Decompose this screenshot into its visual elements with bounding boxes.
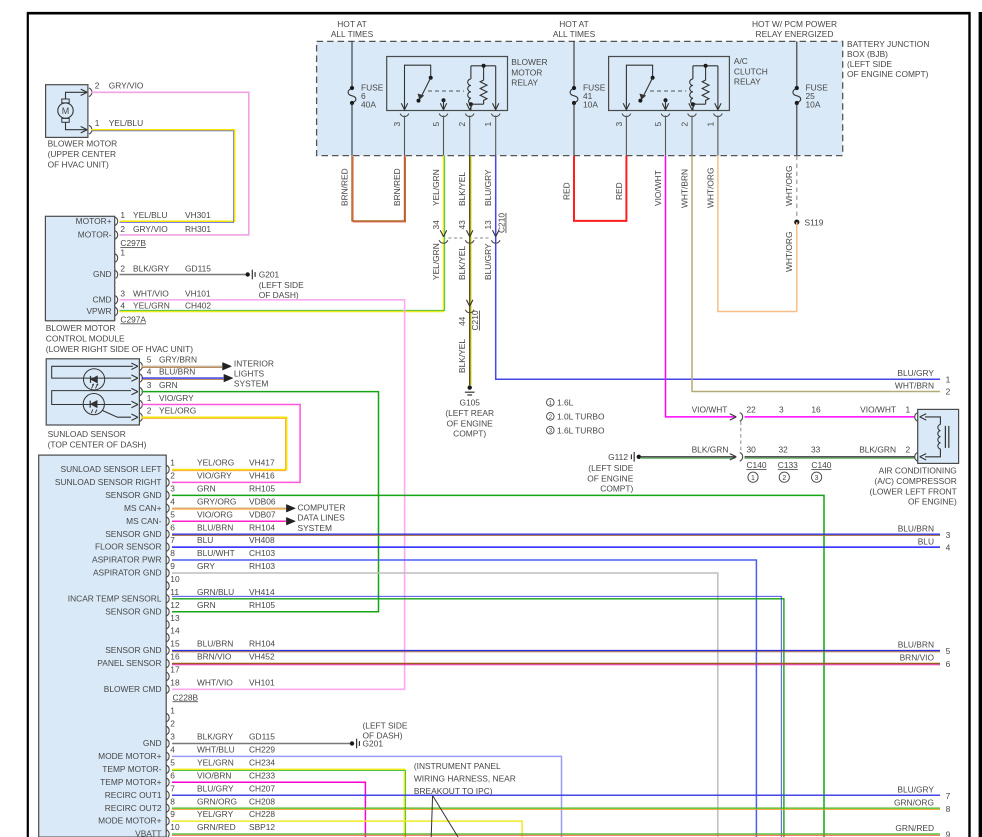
HVAC module box	[39, 455, 167, 837]
svg-text:BLU/GRY: BLU/GRY	[197, 783, 234, 793]
wire WHT/BRN relay K2 pin2 to terminal 2	[692, 156, 940, 392]
svg-text:33: 33	[811, 445, 821, 455]
svg-text:16: 16	[811, 405, 821, 415]
svg-text:BLU: BLU	[197, 535, 213, 545]
HVAC module pin 15 SENSOR GND	[166, 646, 169, 655]
svg-text:WHT/ORG: WHT/ORG	[784, 166, 794, 206]
module U1 pin 1 C297A empty	[115, 254, 118, 263]
svg-text:1: 1	[95, 118, 100, 128]
svg-text:12: 12	[170, 600, 180, 610]
wire BLK/GRN C140 to compressor pin 2	[745, 456, 915, 458]
svg-text:G201: G201	[259, 269, 280, 279]
svg-text:RH103: RH103	[249, 561, 275, 571]
svg-text:3: 3	[170, 483, 175, 493]
svg-text:34: 34	[431, 220, 441, 230]
svg-text:VIO/WHT: VIO/WHT	[860, 405, 896, 415]
HVAC module pin 12 SENSOR GND	[166, 607, 169, 616]
svg-text:4: 4	[170, 496, 175, 506]
svg-text:C210: C210	[497, 213, 507, 233]
svg-text:RELAY ENERGIZED: RELAY ENERGIZED	[756, 29, 834, 39]
relay K2 coil/resistor rails	[693, 65, 718, 67]
svg-text:BLOWER MOTOR: BLOWER MOTOR	[46, 323, 116, 333]
svg-text:5: 5	[170, 509, 175, 519]
svg-text:COMPT): COMPT)	[453, 429, 486, 439]
wire GRY/ORG pin4 to computer data lines	[172, 507, 286, 509]
HVAC module pin 4 MS CAN+	[166, 504, 169, 513]
svg-text:1.6L: 1.6L	[557, 398, 574, 408]
HVAC module pin 8 ASPIRATOR PWR	[166, 556, 169, 565]
svg-text:M: M	[62, 106, 70, 116]
relay K1 coil/resistor rails	[471, 65, 496, 67]
wire YEL/GRN relay K1 pin5 to C210-34 to VPWR	[120, 156, 444, 312]
sunload pin 5 GRY/BRN	[131, 363, 138, 369]
svg-text:RH301: RH301	[185, 224, 211, 234]
svg-text:GRY/VIO: GRY/VIO	[109, 81, 144, 91]
svg-text:YEL/GRN: YEL/GRN	[431, 243, 441, 280]
svg-text:RED: RED	[614, 182, 624, 200]
wire VIO/GRY sunload pin1 to module pin 2	[142, 405, 301, 483]
svg-text:10A: 10A	[806, 100, 821, 110]
svg-text:OF ENGINE): OF ENGINE)	[908, 497, 957, 507]
svg-text:HOT AT: HOT AT	[559, 19, 588, 29]
svg-text:3: 3	[815, 475, 819, 482]
page border frame top	[27, 12, 971, 15]
battery junction box (BJB) dashed enclosure	[317, 41, 843, 155]
svg-text:YEL/ORG: YEL/ORG	[197, 458, 234, 468]
svg-text:BLU/GRY: BLU/GRY	[483, 243, 493, 280]
svg-text:6: 6	[170, 522, 175, 532]
svg-text:2: 2	[170, 471, 175, 481]
wire YEL/ORG sunload pin2 to module pin 1	[142, 417, 287, 469]
svg-text:BLOWER CMD: BLOWER CMD	[104, 684, 162, 694]
HVAC module C228A pin 10 VBATT	[166, 830, 169, 837]
svg-text:BLU/GRY: BLU/GRY	[897, 368, 934, 378]
svg-text:BLOWER MOTOR: BLOWER MOTOR	[48, 139, 118, 149]
blower motor pin 2 connector	[81, 89, 88, 95]
wire GRN/BLU pin11 down off page	[172, 599, 784, 837]
svg-text:ASPIRATOR PWR: ASPIRATOR PWR	[92, 555, 162, 565]
svg-text:DATA LINES: DATA LINES	[298, 513, 346, 523]
svg-text:WHT/ORG: WHT/ORG	[705, 168, 715, 208]
svg-text:VIO/WHT: VIO/WHT	[653, 170, 663, 206]
svg-text:(TOP CENTER OF DASH): (TOP CENTER OF DASH)	[48, 440, 147, 450]
sunload sensor box	[46, 359, 139, 425]
svg-text:MOTOR+: MOTOR+	[76, 216, 112, 226]
svg-text:3: 3	[946, 530, 951, 540]
sunload sensor element 2 rectangle	[52, 391, 131, 405]
module U1 pin 3 CMD	[115, 296, 118, 305]
engine legend circled 1 1.6L	[547, 399, 555, 407]
svg-text:3: 3	[170, 732, 175, 742]
relay K1 pin arrows and connector arcs	[401, 103, 407, 110]
sunload photodiode D2	[83, 394, 104, 415]
blower motor internal wires	[66, 92, 87, 99]
wire fuse 25 to box bottom	[796, 103, 798, 156]
svg-text:CH234: CH234	[249, 757, 275, 767]
svg-text:BLK/YEL: BLK/YEL	[457, 246, 467, 280]
svg-text:1: 1	[946, 374, 951, 384]
svg-text:WHT/VIO: WHT/VIO	[133, 289, 169, 299]
svg-text:ALL TIMES: ALL TIMES	[553, 29, 596, 39]
svg-text:GRN: GRN	[197, 483, 216, 493]
svg-text:2: 2	[906, 445, 911, 455]
wire GRY/BRN sunload pin5 to interior lights	[142, 365, 222, 367]
svg-text:C133: C133	[778, 460, 798, 470]
svg-text:SENSOR GND: SENSOR GND	[105, 645, 161, 655]
relay K2 coil	[690, 79, 693, 104]
svg-text:9: 9	[946, 830, 951, 837]
svg-text:40A: 40A	[361, 100, 376, 110]
svg-text:VH408: VH408	[249, 535, 275, 545]
svg-text:5: 5	[431, 122, 441, 127]
svg-text:10: 10	[170, 822, 180, 832]
svg-text:BLU/GRY: BLU/GRY	[483, 169, 493, 206]
svg-text:C297A: C297A	[120, 314, 146, 324]
svg-text:YEL/BLU: YEL/BLU	[109, 118, 143, 128]
wire WHT/ORG fuse25 dashed segment to S119	[796, 156, 798, 219]
arrow to interior lights 2	[224, 374, 233, 382]
C210 pin 13 connector	[493, 230, 499, 237]
wire BLU/GRY pin7 to terminal 7	[172, 794, 940, 796]
engine legend circled 3 1.6L TURBO	[547, 426, 555, 434]
svg-text:COMPUTER: COMPUTER	[298, 502, 346, 512]
circled 3 below C140b	[812, 472, 822, 482]
relay K1 resistor	[480, 66, 487, 104]
HVAC module C228A pin 4 MODE MOTOR+	[166, 752, 169, 761]
wire BLK/GRY module GND to G201	[120, 274, 248, 276]
sunload photodiode D1	[84, 369, 105, 390]
svg-text:WHT/BRN: WHT/BRN	[895, 381, 934, 391]
wire RED fuse 41 to relay K2 pin 3	[574, 156, 626, 221]
svg-text:BLK/GRN: BLK/GRN	[859, 445, 896, 455]
svg-text:2: 2	[147, 406, 152, 416]
C210 pin 34 connector	[440, 230, 446, 237]
svg-text:GRN/RED: GRN/RED	[197, 822, 236, 832]
HVAC module pin 18 BLOWER CMD	[166, 685, 169, 694]
wire WHT/BLU pin4 down off page	[172, 756, 562, 837]
wire WHT/ORG S119 down to bend	[796, 222, 798, 311]
wire YEL/GRN pin5 down off page	[172, 769, 404, 837]
svg-text:GRN/ORG: GRN/ORG	[197, 796, 237, 806]
svg-text:13: 13	[170, 613, 180, 623]
HVAC module C228A pin 1 empty	[166, 713, 169, 722]
relay K2 actuator dashed link	[650, 90, 686, 92]
HVAC module C228A pin 3 GND	[166, 739, 169, 748]
HVAC module pin 1 SUNLOAD SENSOR LEFT	[166, 465, 169, 474]
svg-text:C210: C210	[470, 310, 480, 330]
relay K2 pin arrows and connector arcs	[623, 103, 629, 110]
svg-text:YEL/GRN: YEL/GRN	[133, 300, 170, 310]
feed wire into fuse 6	[351, 41, 353, 88]
svg-text:2: 2	[120, 263, 125, 273]
svg-text:30: 30	[747, 445, 757, 455]
wire VIO/WHT C140 to compressor pin 1	[745, 416, 915, 418]
svg-text:(LEFT SIDE: (LEFT SIDE	[259, 280, 304, 290]
svg-text:RH104: RH104	[249, 639, 275, 649]
svg-text:C140: C140	[811, 460, 831, 470]
C210 pin 43 connector	[467, 230, 473, 237]
svg-text:VH301: VH301	[185, 210, 211, 220]
ground G112	[637, 455, 641, 459]
svg-text:(LOWER RIGHT SIDE OF HVAC UNIT: (LOWER RIGHT SIDE OF HVAC UNIT)	[46, 344, 193, 354]
HVAC module pin 13 empty	[166, 620, 169, 629]
HVAC module C228A pin 6 TEMP MOTOR+	[166, 778, 169, 787]
svg-text:HOT AT: HOT AT	[337, 19, 366, 29]
svg-text:7: 7	[946, 791, 951, 801]
engine legend circled 2 1.0L TURBO	[547, 413, 555, 421]
svg-text:BLK/GRY: BLK/GRY	[197, 732, 234, 742]
svg-text:SBP12: SBP12	[249, 822, 275, 832]
svg-text:RH105: RH105	[249, 483, 275, 493]
svg-text:GND: GND	[93, 269, 112, 279]
svg-text:CH233: CH233	[249, 770, 275, 780]
svg-text:INCAR TEMP SENSORL: INCAR TEMP SENSORL	[68, 593, 162, 603]
sunload pin 3 GRN	[131, 388, 138, 394]
svg-text:MODE MOTOR+: MODE MOTOR+	[98, 816, 161, 826]
inline connector on VIO/WHT wire	[730, 414, 737, 420]
svg-text:CMD: CMD	[93, 294, 112, 304]
wire fuse 41 to box bottom	[573, 103, 575, 156]
svg-text:YEL/BLU: YEL/BLU	[133, 210, 167, 220]
svg-text:3: 3	[147, 380, 152, 390]
svg-text:BLK/YEL: BLK/YEL	[457, 172, 467, 206]
connector C228A dashed pin link	[166, 718, 168, 834]
svg-text:OF ENGINE COMPT): OF ENGINE COMPT)	[847, 69, 929, 79]
svg-text:CH207: CH207	[249, 783, 275, 793]
svg-text:GRN/RED: GRN/RED	[895, 823, 934, 833]
svg-text:2: 2	[95, 81, 100, 91]
svg-text:10A: 10A	[583, 100, 598, 110]
svg-text:14: 14	[170, 626, 180, 636]
svg-text:2: 2	[120, 224, 125, 234]
ground G105	[468, 385, 472, 389]
svg-text:BLU: BLU	[918, 536, 934, 546]
svg-text:PANEL SENSOR: PANEL SENSOR	[97, 658, 161, 668]
HVAC module pin 16 PANEL SENSOR	[166, 659, 169, 668]
svg-text:MOTOR-: MOTOR-	[78, 230, 112, 240]
wire GRY pin9 down off page	[172, 573, 718, 837]
relay K1 actuator dashed link	[428, 90, 464, 92]
svg-text:YEL/GRN: YEL/GRN	[197, 757, 234, 767]
svg-text:(LOWER LEFT FRONT: (LOWER LEFT FRONT	[869, 486, 956, 496]
HVAC module C228A pin 7 RECIRC OUT1	[166, 791, 169, 800]
svg-text:3: 3	[614, 122, 624, 127]
module U1 pin 2 GND	[115, 270, 118, 279]
svg-text:SUNLOAD SENSOR LEFT: SUNLOAD SENSOR LEFT	[61, 464, 162, 474]
svg-text:1: 1	[170, 706, 175, 716]
svg-text:1: 1	[549, 400, 553, 407]
module U1 pin 2 MOTOR-	[115, 231, 118, 240]
wire YEL/BLU blower pin1 to module MOTOR+	[91, 130, 235, 222]
relay K1 coil	[468, 79, 471, 104]
svg-text:BLK/GRN: BLK/GRN	[692, 445, 729, 455]
C210 connector dashed link	[449, 237, 466, 239]
svg-text:LIGHTS: LIGHTS	[234, 369, 265, 379]
svg-text:ASPIRATOR GND: ASPIRATOR GND	[93, 568, 162, 578]
svg-text:1: 1	[120, 210, 125, 220]
svg-text:TEMP MOTOR+: TEMP MOTOR+	[100, 777, 161, 787]
svg-text:OF DASH): OF DASH)	[363, 731, 403, 741]
wire BLU/BRN sunload pin4 to interior lights	[142, 377, 224, 379]
blower motor M symbol	[58, 103, 73, 118]
svg-text:YEL/ORG: YEL/ORG	[159, 406, 196, 416]
svg-text:1: 1	[906, 405, 911, 415]
svg-text:5: 5	[170, 757, 175, 767]
wire WHT/VIO CMD to module pin 18 BLOWER CMD	[120, 300, 405, 690]
fuse 41 10A	[570, 88, 578, 103]
fuse 6 40A	[348, 88, 356, 103]
svg-text:17: 17	[170, 664, 180, 674]
svg-text:BATTERY JUNCTION: BATTERY JUNCTION	[847, 39, 929, 49]
svg-text:43: 43	[457, 220, 467, 230]
svg-text:22: 22	[747, 405, 757, 415]
svg-text:2: 2	[170, 719, 175, 729]
svg-text:YEL/GRN: YEL/GRN	[431, 169, 441, 206]
svg-text:2: 2	[679, 122, 689, 127]
svg-text:8: 8	[946, 804, 951, 814]
svg-text:RECIRC OUT2: RECIRC OUT2	[105, 803, 162, 813]
svg-text:VH101: VH101	[185, 289, 211, 299]
svg-text:GRY/VIO: GRY/VIO	[133, 224, 168, 234]
wire BRN/VIO pin16 to terminal 6	[172, 662, 940, 664]
svg-text:GRN/BLU: GRN/BLU	[197, 587, 234, 597]
svg-text:GRN: GRN	[159, 380, 178, 390]
svg-text:1: 1	[705, 122, 715, 127]
HVAC module pin 10 empty	[166, 582, 169, 591]
svg-text:FLOOR SENSOR: FLOOR SENSOR	[95, 542, 162, 552]
svg-text:2: 2	[549, 414, 553, 421]
circled 2 below C133	[779, 472, 789, 482]
relay K2 resistor	[702, 66, 709, 104]
svg-text:(UPPER CENTER: (UPPER CENTER	[48, 149, 116, 159]
ground splice G201 lower	[350, 741, 354, 745]
svg-text:RH104: RH104	[249, 522, 275, 532]
adjacent page edge sliver right	[979, 12, 982, 837]
svg-text:SUNLOAD SENSOR: SUNLOAD SENSOR	[48, 429, 126, 439]
svg-text:VH414: VH414	[249, 587, 275, 597]
wire VIO/WHT relay K2 pin5 to C140 pin22	[666, 156, 736, 417]
svg-text:GD115: GD115	[249, 732, 275, 742]
svg-text:G112: G112	[608, 452, 628, 462]
svg-text:MOTOR: MOTOR	[511, 67, 542, 77]
svg-text:SUNLOAD SENSOR RIGHT: SUNLOAD SENSOR RIGHT	[55, 477, 162, 487]
sunload diagonal wire to pin 2	[103, 411, 132, 418]
svg-text:VH101: VH101	[249, 677, 275, 687]
wire BRN/RED fuse6 to relay K1 pin 3	[352, 156, 405, 221]
svg-text:9: 9	[170, 809, 175, 819]
fuse 25 10A	[793, 88, 801, 103]
svg-text:BRN/RED: BRN/RED	[392, 168, 402, 206]
relay K1 pin wires inside junction box	[404, 116, 406, 156]
HVAC module pin 9 ASPIRATOR GND	[166, 569, 169, 578]
svg-text:S119: S119	[805, 217, 824, 227]
svg-text:8: 8	[170, 548, 175, 558]
wire BLU/BRN pin6 to terminal 3	[172, 533, 940, 535]
svg-text:RED: RED	[561, 182, 571, 200]
relay K2 switch contact	[626, 65, 652, 110]
svg-text:15: 15	[170, 639, 180, 649]
blower motor pin 1 connector	[81, 127, 88, 133]
svg-text:32: 32	[779, 445, 789, 455]
svg-text:RH105: RH105	[249, 600, 275, 610]
wire VIO/BRN pin6 down off page	[172, 782, 365, 837]
A/C compressor box	[918, 409, 959, 463]
svg-text:SENSOR GND: SENSOR GND	[105, 606, 161, 616]
svg-text:SYSTEM: SYSTEM	[234, 379, 268, 389]
svg-text:BLK/GRY: BLK/GRY	[133, 263, 170, 273]
svg-text:2: 2	[946, 387, 951, 397]
wire BLK/GRY pin3 to G201 lower	[172, 743, 352, 745]
HVAC module pin 3 SENSOR GND	[166, 491, 169, 500]
svg-text:4: 4	[170, 745, 175, 755]
HVAC module C228A pin 9 MODE MOTOR+	[166, 817, 169, 826]
svg-text:VIO/ORG: VIO/ORG	[197, 509, 233, 519]
svg-text:GRY/BRN: GRY/BRN	[159, 355, 197, 365]
svg-text:ALL TIMES: ALL TIMES	[331, 29, 374, 39]
svg-text:MODE MOTOR+: MODE MOTOR+	[98, 751, 161, 761]
svg-text:BLU/GRY: BLU/GRY	[897, 784, 934, 794]
relay K1 switch contact	[405, 65, 431, 110]
svg-text:OF ENGINE: OF ENGINE	[587, 473, 633, 483]
svg-text:SENSOR GND: SENSOR GND	[105, 529, 161, 539]
svg-text:VBATT: VBATT	[135, 829, 161, 837]
svg-text:(LEFT SIDE: (LEFT SIDE	[847, 59, 892, 69]
C297A connector dashed link	[114, 258, 116, 312]
svg-text:BLU/BRN: BLU/BRN	[898, 523, 934, 533]
splice S119	[794, 220, 799, 225]
svg-text:3: 3	[779, 405, 784, 415]
svg-text:C140: C140	[747, 460, 767, 470]
svg-text:7: 7	[170, 535, 175, 545]
svg-text:OF DASH): OF DASH)	[259, 290, 299, 300]
svg-text:RELAY: RELAY	[734, 77, 761, 87]
sunload pin 2 YEL/ORG	[131, 414, 138, 420]
svg-text:13: 13	[483, 220, 493, 230]
blower motor box	[46, 85, 88, 138]
svg-text:RECIRC OUT1: RECIRC OUT1	[105, 790, 162, 800]
svg-text:GRN/ORG: GRN/ORG	[894, 797, 934, 807]
inline connector on BLK/GRN wire	[730, 454, 737, 460]
svg-text:BLU/BRN: BLU/BRN	[898, 640, 934, 650]
svg-text:2: 2	[457, 122, 467, 127]
svg-text:OF HVAC UNIT): OF HVAC UNIT)	[48, 159, 109, 169]
svg-text:2: 2	[782, 475, 786, 482]
HVAC module pin 6 SENSOR GND	[166, 530, 169, 539]
svg-text:BRN/VIO: BRN/VIO	[197, 652, 232, 662]
svg-text:(LEFT SIDE: (LEFT SIDE	[588, 463, 633, 473]
svg-text:VH416: VH416	[249, 471, 275, 481]
wire GRN/RED pin10 to terminal 9	[172, 833, 940, 835]
sunload sensor element 1 rectangle	[52, 366, 131, 378]
A/C compressor clutch coil	[925, 417, 940, 425]
relay K2 A/C clutch relay box	[609, 57, 730, 111]
HVAC module pin 5 MS CAN-	[166, 517, 169, 526]
svg-text:RELAY: RELAY	[511, 78, 538, 88]
svg-text:BLOWER: BLOWER	[511, 57, 547, 67]
svg-text:BOX (BJB): BOX (BJB)	[847, 49, 888, 59]
svg-text:BLU/WHT: BLU/WHT	[197, 548, 235, 558]
svg-text:5: 5	[653, 122, 663, 127]
svg-text:TEMP MOTOR-: TEMP MOTOR-	[102, 764, 161, 774]
sunload pin 4 BLU/BRN	[131, 375, 138, 381]
HVAC module pin 17 empty	[166, 672, 169, 681]
svg-text:10: 10	[170, 574, 180, 584]
instrument panel callout leader lines	[431, 796, 432, 837]
relay K1 blower motor relay box	[387, 57, 508, 111]
svg-text:COMPT): COMPT)	[600, 484, 633, 494]
wire BLK/GRN G112 to C140 pin 30	[641, 456, 735, 458]
HVAC module pin 2 SUNLOAD SENSOR RIGHT	[166, 478, 169, 487]
